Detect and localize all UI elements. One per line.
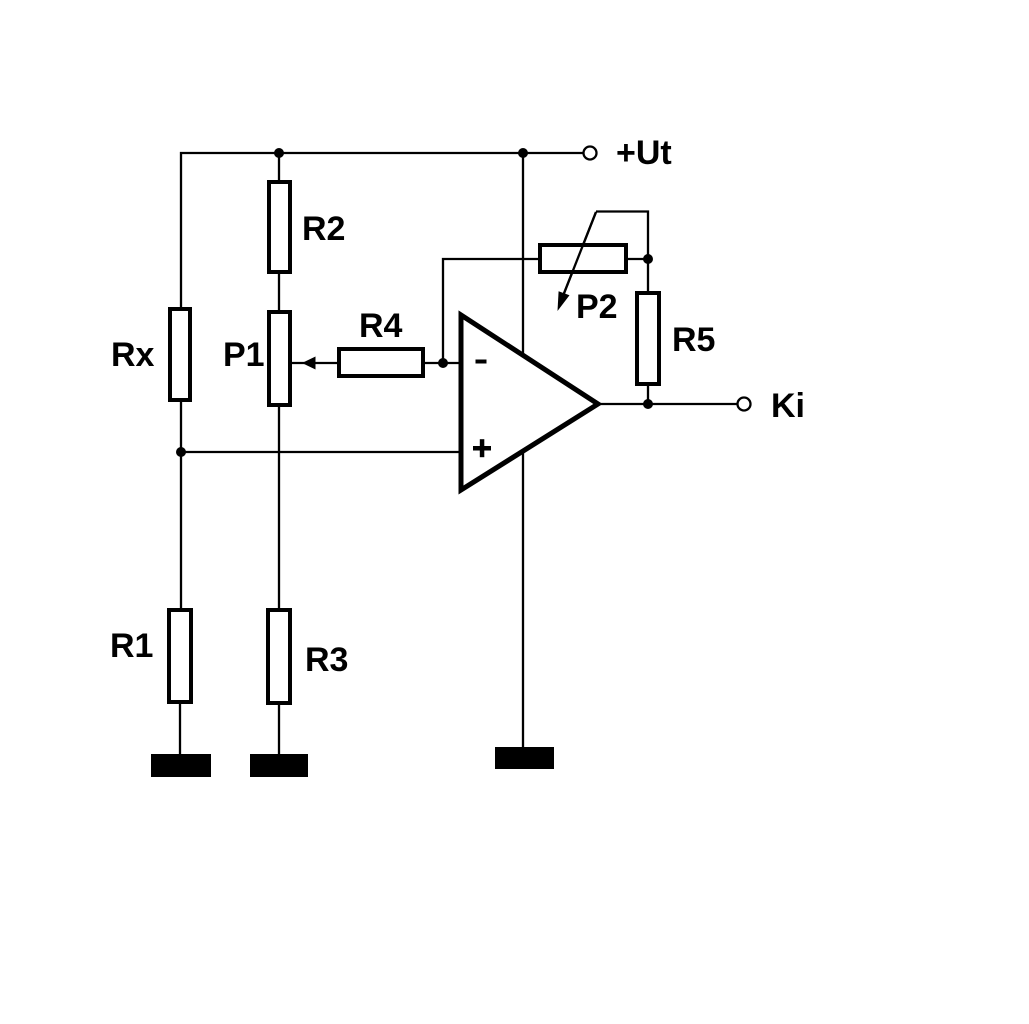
svg-text:Rx: Rx — [111, 336, 155, 374]
svg-text:P1: P1 — [223, 336, 265, 374]
svg-text:R1: R1 — [110, 627, 153, 665]
svg-text:+Ut: +Ut — [616, 134, 672, 172]
svg-text:R2: R2 — [302, 210, 345, 248]
svg-text:Ki: Ki — [771, 387, 805, 425]
svg-text:R5: R5 — [672, 321, 715, 359]
svg-text:R3: R3 — [305, 641, 348, 679]
svg-text:P2: P2 — [576, 288, 618, 326]
svg-text:R4: R4 — [359, 307, 403, 345]
